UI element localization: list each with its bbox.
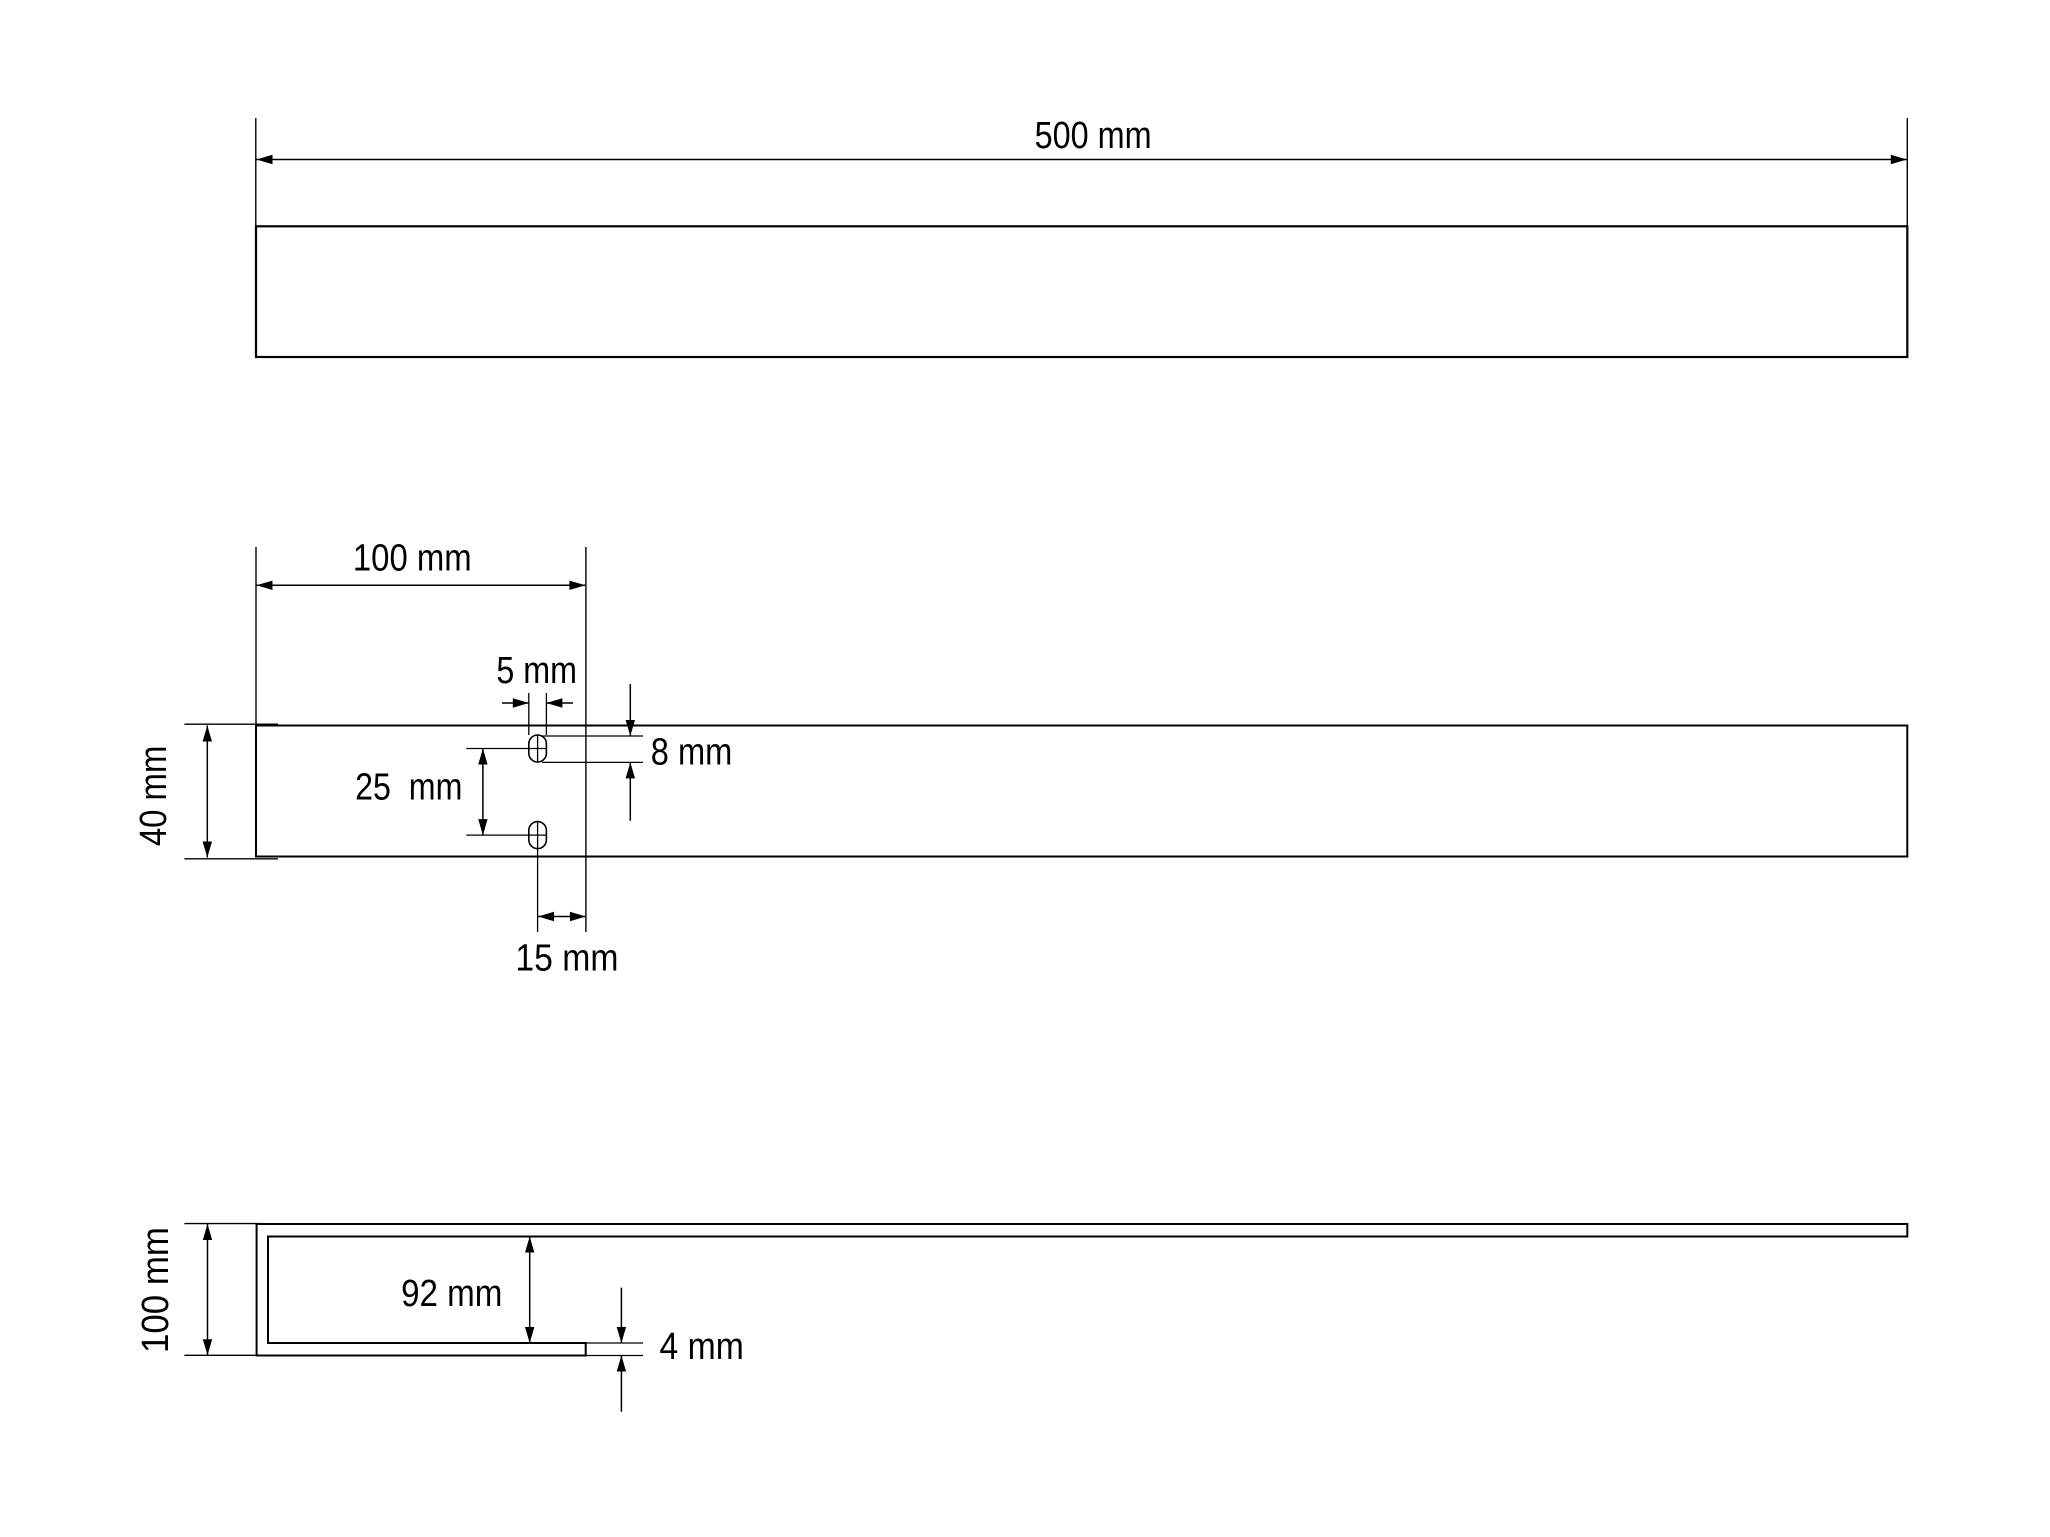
bottom view: L-profile outline bbox=[257, 1224, 1908, 1356]
svg-text:15 mm: 15 mm bbox=[515, 938, 618, 980]
top view: right extension line bbox=[1906, 118, 1908, 226]
svg-text:40 mm: 40 mm bbox=[133, 746, 175, 847]
dimension 100 mm (middle view): dimension line with arrowheads bbox=[256, 581, 586, 590]
lower slotted hole (5x8 mm) bbox=[529, 822, 547, 849]
dimension 92 mm: vertical dimension line with arrowheads bbox=[525, 1237, 534, 1344]
dimension 25 mm: vertical dimension line with arrowheads bbox=[478, 749, 487, 836]
upper slotted hole (5x8 mm) bbox=[529, 735, 547, 762]
svg-text:25 mm: 25 mm bbox=[355, 766, 462, 808]
dimension 40 mm: extension ticks bbox=[184, 724, 278, 859]
svg-text:92 mm: 92 mm bbox=[401, 1273, 502, 1315]
middle view: left extension line (above bar, 100 mm dim) bbox=[255, 547, 257, 726]
dimension 40 mm: vertical dimension line with arrowheads bbox=[203, 726, 212, 858]
svg-text:4 mm: 4 mm bbox=[660, 1326, 744, 1368]
dimension 4 mm: outside arrows pointing inward bbox=[617, 1288, 626, 1412]
dimension 8 mm: outside arrows pointing inward bbox=[626, 684, 635, 821]
dimension 5 mm: extension lines bbox=[529, 693, 547, 735]
dimension 4 mm: extension lines from flange end bbox=[586, 1343, 643, 1356]
svg-text:500 mm: 500 mm bbox=[1035, 115, 1152, 157]
top view: left extension line bbox=[255, 118, 257, 226]
dimension 100 mm (bottom view): vertical dimension line with arrowheads bbox=[203, 1224, 212, 1355]
lower slot vertical centerline extended down (15 mm left extension line) bbox=[537, 822, 539, 932]
middle view: bar outline rectangle bbox=[256, 726, 1907, 857]
upper slot horizontal centerline (also 25 mm top shoulder) bbox=[466, 748, 546, 750]
svg-text:8 mm: 8 mm bbox=[651, 732, 733, 774]
upper slot vertical centerline bbox=[537, 735, 539, 762]
dimension 100 mm (bottom view): extension ticks bbox=[184, 1224, 262, 1356]
top view: bar outline rectangle 500x40 bbox=[256, 226, 1907, 357]
svg-text:100 mm: 100 mm bbox=[135, 1227, 177, 1353]
middle view: shared right extension line (100 mm / 15 mm dims) bbox=[585, 547, 587, 932]
dimension 5 mm: outside arrows pointing inward bbox=[502, 698, 573, 707]
svg-text:5 mm: 5 mm bbox=[496, 650, 577, 692]
lower slot horizontal centerline (also 25 mm bottom shoulder) bbox=[466, 834, 546, 836]
svg-text:100 mm: 100 mm bbox=[353, 538, 472, 580]
dimension 15 mm: dimension line with arrowheads bbox=[538, 912, 586, 921]
dimension 8 mm: extension lines tangent to slot bbox=[542, 736, 643, 762]
dimension 500 mm: dimension line with arrowheads bbox=[257, 155, 1907, 164]
